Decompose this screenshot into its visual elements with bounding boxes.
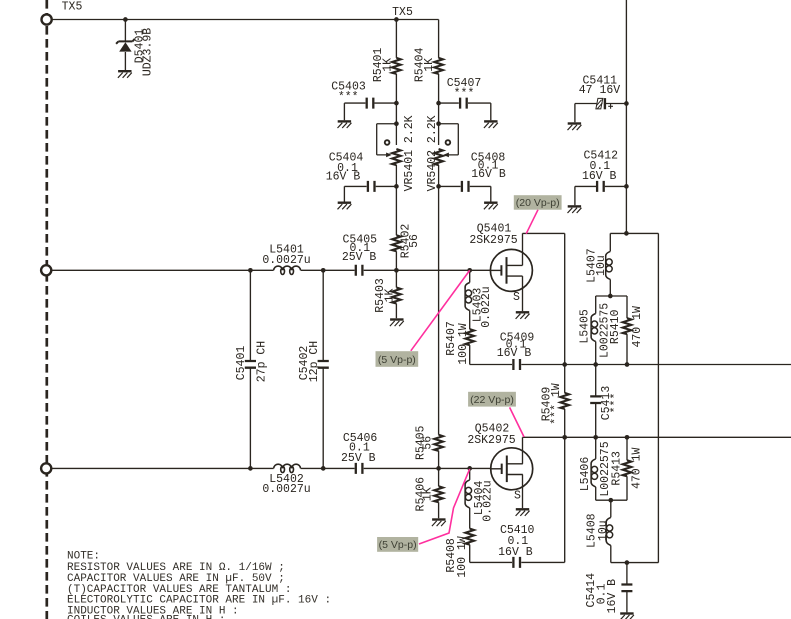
label C5401 — [235, 341, 269, 382]
capacitor C5410 — [513, 557, 520, 568]
label R5413 — [610, 448, 643, 490]
label Q5401 — [469, 223, 517, 248]
pointer line 20Vp-p — [526, 210, 538, 234]
junction rail1 R5409 — [562, 362, 567, 367]
junction rail1 L5405 — [593, 362, 598, 367]
wire C5404 link — [344, 186, 396, 201]
ground Q5402 source — [516, 509, 530, 516]
svg-text:56: 56 — [422, 436, 435, 450]
wire D5401 branch — [124, 20, 126, 71]
label D5401 — [134, 28, 155, 76]
svg-text:0.0027u: 0.0027u — [262, 254, 310, 267]
svg-text:L5406: L5406 — [579, 457, 592, 492]
svg-text:S: S — [513, 291, 520, 304]
wire R5409 — [564, 365, 566, 438]
label L5408 — [586, 513, 611, 548]
diode D5401 (zener) — [116, 39, 135, 52]
wire supply rail — [625, 0, 627, 233]
svg-text:(5 Vp-p): (5 Vp-p) — [378, 354, 416, 366]
svg-text:25V B: 25V B — [341, 452, 376, 465]
inductor L5402 — [274, 464, 301, 472]
label VR5401 — [403, 115, 416, 191]
resistor R5403 — [392, 288, 401, 304]
label C5412 — [582, 149, 618, 183]
label C5414 — [585, 573, 619, 614]
svg-text:16V B: 16V B — [497, 347, 532, 360]
wire L5407 — [609, 233, 611, 296]
wire C5407 link — [439, 103, 491, 120]
pointer line 22Vp-p — [510, 407, 524, 437]
ground C5404 — [338, 203, 352, 210]
label C5408 — [471, 152, 506, 181]
node TX5 label right — [392, 6, 413, 19]
ground C5412 — [568, 206, 582, 213]
label Q5402 — [467, 423, 515, 448]
label R5404 — [414, 48, 437, 83]
junction supply link — [624, 231, 629, 236]
inductor L5406 — [591, 459, 598, 487]
wire branch1 lower — [395, 186, 397, 270]
resistor R5406 — [434, 486, 443, 502]
svg-text:25V B: 25V B — [342, 251, 377, 264]
label L5404 — [473, 480, 495, 521]
label R5409 — [541, 383, 564, 425]
inductor L5407 — [606, 251, 613, 279]
svg-text:16V B: 16V B — [582, 170, 617, 183]
svg-text:TX5: TX5 — [62, 1, 83, 14]
label C5402 — [298, 341, 321, 382]
label C5406 — [341, 432, 377, 465]
svg-text:*** 1W: *** 1W — [550, 383, 563, 425]
svg-text:(20 Vp-p): (20 Vp-p) — [516, 197, 560, 209]
junction C5402 bottom — [321, 466, 326, 471]
svg-text:0.022u: 0.022u — [480, 286, 493, 327]
junction branch2/input — [436, 466, 441, 471]
connector terminal top (TX5 input) — [42, 14, 52, 24]
wire drain rail 2 — [523, 436, 791, 438]
svg-text:VR5402 2.2K: VR5402 2.2K — [426, 115, 439, 191]
label C5405 — [342, 234, 377, 264]
svg-text:S: S — [514, 490, 521, 503]
resistor R5401 — [392, 58, 401, 74]
resistor R5405 — [434, 435, 443, 451]
wire branch2 upper — [438, 20, 440, 124]
svg-text:(22 Vp-p): (22 Vp-p) — [470, 394, 514, 406]
svg-text:16V B: 16V B — [326, 171, 361, 184]
transistor Q5401 — [490, 249, 532, 291]
label R5408 — [445, 536, 469, 578]
label L5407 — [585, 248, 608, 283]
potentiometer VR5401 — [377, 124, 401, 187]
capacitor C5408 — [462, 181, 469, 192]
capacitor C5411 (electrolytic) — [596, 98, 613, 109]
capacitor C5401 — [245, 361, 256, 368]
label R5406 — [414, 477, 434, 512]
wire right loop vertical — [657, 233, 659, 562]
connector terminal middle — [41, 265, 51, 275]
pin S Q5402 — [514, 490, 521, 503]
note block — [67, 551, 331, 619]
junction gate Q5402 — [467, 466, 472, 471]
label R5401 — [372, 48, 394, 83]
label L5405 — [579, 303, 612, 358]
ground C5408 — [484, 203, 498, 210]
resistor R5408 — [465, 529, 474, 545]
wire C5402 branch — [322, 270, 324, 468]
label R5402 — [399, 224, 421, 259]
svg-text:R5410: R5410 — [609, 309, 622, 344]
label R5405 — [414, 425, 434, 460]
resistor R5413 — [623, 460, 632, 476]
ground Q5401 source — [516, 312, 530, 319]
wire branch2 long — [438, 186, 440, 468]
svg-text:100 1W: 100 1W — [456, 536, 469, 578]
wire C5414 branch — [626, 563, 628, 613]
svg-text:12p CH: 12p CH — [308, 341, 321, 382]
wire input top — [51, 269, 490, 271]
ground C5411 — [568, 124, 582, 131]
annotation (22 Vp-p) — [468, 392, 516, 407]
svg-text:TX5: TX5 — [392, 6, 413, 19]
annotation (5 Vp-p) bottom — [377, 537, 418, 552]
inductor L5401 — [274, 266, 301, 274]
wire output rail 1 — [565, 364, 791, 366]
transistor Q5402 — [491, 448, 533, 490]
label R5403 — [374, 278, 396, 313]
resistor R5402 — [392, 235, 401, 251]
connector terminal bottom — [41, 463, 51, 473]
wire Q5401 drain — [523, 233, 565, 364]
junction rail2 L5406 — [593, 435, 598, 440]
svg-text:100 1W: 100 1W — [457, 323, 470, 365]
capacitor C5409 — [513, 359, 520, 370]
junction rail2 R5413 — [625, 435, 630, 440]
svg-text:1K: 1K — [422, 487, 435, 501]
capacitor C5414 — [621, 585, 632, 592]
svg-text:16V B: 16V B — [498, 546, 533, 559]
junction C5401 top — [248, 268, 253, 273]
inductor L5404 — [465, 480, 472, 508]
svg-text:47 16V: 47 16V — [579, 84, 621, 97]
svg-text:0.022u: 0.022u — [482, 480, 495, 521]
wire L5403 R5407 branch — [470, 270, 565, 364]
wire C5412 link — [575, 186, 627, 205]
junction C5402 top — [321, 268, 326, 273]
wire loop2 — [596, 437, 627, 500]
label R5410 — [609, 306, 644, 348]
label C5403 — [331, 81, 366, 104]
svg-text:***: *** — [454, 87, 475, 100]
wire Q5402 drain — [522, 437, 524, 464]
wire Q5401 source — [522, 276, 524, 311]
junction C5407 — [436, 101, 441, 106]
junction VR5401 bottom — [394, 184, 399, 189]
svg-text:2SK2975: 2SK2975 — [469, 234, 517, 247]
capacitor C5403 — [367, 98, 374, 109]
inductor L5403 — [465, 283, 472, 311]
svg-text:NOTE:: NOTE: — [67, 551, 100, 563]
label L5406 — [579, 441, 612, 496]
label C5404 — [326, 152, 364, 184]
wire C5408 link — [439, 186, 491, 201]
svg-text:C5401: C5401 — [235, 346, 248, 381]
svg-text:470 1W: 470 1W — [631, 306, 644, 348]
label C5410 — [498, 524, 534, 559]
wire R5406 branch — [438, 468, 440, 518]
junction C5412 — [624, 184, 629, 189]
annotation (20 Vp-p) — [514, 195, 562, 210]
svg-text:470 1W: 470 1W — [631, 448, 644, 490]
resistor R5407 — [465, 329, 474, 345]
junction gate Q5401 — [467, 268, 472, 273]
svg-text:UDZ3.9B: UDZ3.9B — [142, 28, 155, 76]
capacitor C5407 — [460, 98, 467, 109]
svg-text:0.0027u: 0.0027u — [262, 483, 310, 496]
label C5407 — [447, 77, 482, 100]
label R5407 — [445, 321, 470, 364]
junction at D5401 — [123, 17, 128, 22]
svg-text:10u: 10u — [597, 520, 610, 541]
pointer line 5Vp-p bottom — [419, 469, 470, 544]
resistor R5409 — [560, 393, 569, 409]
capacitor C5413 — [590, 396, 601, 403]
wire branch1 upper — [395, 20, 397, 124]
wire loop1 — [596, 296, 627, 365]
ground R5406 — [432, 520, 446, 527]
wire Q5402 source — [522, 475, 524, 509]
svg-text:16V B: 16V B — [471, 168, 506, 181]
junction loop2 bottom — [608, 498, 613, 503]
capacitor C5404 — [368, 181, 375, 192]
junction C5401 bottom — [248, 466, 253, 471]
wire L5404 R5408 branch — [470, 437, 565, 562]
svg-text:R5413: R5413 — [610, 451, 623, 486]
resistor R5404 — [434, 58, 443, 74]
capacitor C5402 — [318, 361, 329, 368]
svg-text:1K: 1K — [383, 289, 396, 303]
svg-text:2SK2975: 2SK2975 — [467, 434, 515, 447]
junction VR5402 bottom — [436, 184, 441, 189]
wire C5403 link — [344, 103, 396, 120]
label L5402 — [262, 473, 310, 496]
svg-text:COILES VALUES ARE IN H :: COILES VALUES ARE IN H : — [67, 614, 225, 619]
junction C5411 — [624, 101, 629, 106]
junction TX5/branch1 — [394, 17, 399, 22]
ground R5403 — [390, 320, 404, 327]
ground C5414 — [620, 614, 634, 619]
svg-text:10u: 10u — [595, 255, 608, 276]
annotation (5 Vp-p) top — [376, 351, 419, 367]
svg-text:56: 56 — [408, 234, 421, 248]
svg-text:27p CH: 27p CH — [256, 341, 269, 382]
wire supply link top — [610, 232, 658, 234]
junction VR5402 top — [436, 121, 441, 126]
svg-text:VR5401 2.2K: VR5401 2.2K — [403, 115, 416, 191]
resistor R5410 — [623, 318, 632, 334]
label L5401 — [262, 244, 310, 267]
wire C5413 — [595, 365, 597, 438]
potentiometer VR5402 — [434, 124, 458, 187]
junction C5403 — [394, 101, 399, 106]
junction rail2 R5409 — [562, 435, 567, 440]
svg-text:***: *** — [610, 393, 623, 414]
junction branch1/input — [394, 268, 399, 273]
junction VR5401 top — [394, 121, 399, 126]
label C5413 — [600, 386, 623, 421]
ground C5403 — [338, 121, 352, 128]
wire L5408 — [611, 500, 659, 562]
wire TX5 rail — [52, 19, 439, 21]
dashed module border — [45, 0, 48, 619]
ground C5407 — [484, 121, 498, 128]
capacitor C5405 — [356, 265, 363, 276]
svg-text:(5 Vp-p): (5 Vp-p) — [379, 539, 417, 551]
wire C5401 branch — [249, 270, 251, 468]
label L5403 — [472, 286, 494, 327]
pointer line 5Vp-p top — [411, 270, 470, 350]
wire C5411 link — [575, 104, 627, 123]
label C5409 — [497, 331, 535, 360]
wire input bottom — [51, 467, 490, 469]
label C5411 — [579, 75, 621, 97]
inductor L5405 — [591, 314, 598, 342]
node TX5 label left — [62, 1, 83, 14]
svg-text:1K: 1K — [423, 58, 436, 72]
svg-text:1K: 1K — [382, 58, 395, 72]
ground D5401 — [118, 71, 132, 78]
inductor L5408 — [606, 517, 613, 545]
junction rail1 R5410 — [625, 362, 630, 367]
label VR5402 — [426, 115, 439, 191]
svg-text:***: *** — [338, 91, 359, 104]
junction L5407 bottom — [608, 294, 613, 299]
junction C5414 — [625, 560, 630, 565]
pin S Q5401 — [513, 291, 520, 304]
capacitor C5406 — [356, 463, 363, 474]
svg-text:16V B: 16V B — [606, 579, 619, 614]
wire R5403 branch — [395, 270, 397, 318]
svg-text:L5405: L5405 — [579, 309, 592, 344]
capacitor C5412 — [597, 181, 604, 192]
